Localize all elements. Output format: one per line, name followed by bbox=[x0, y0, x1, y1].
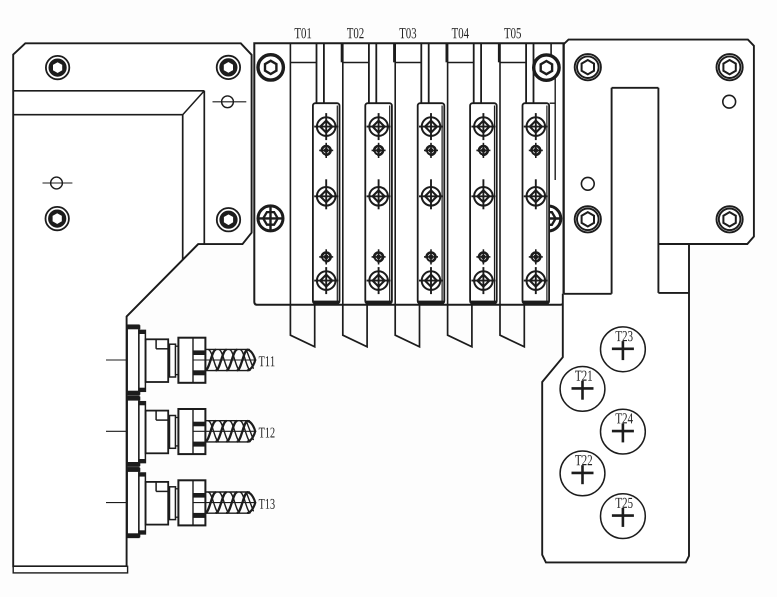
drill unit T13 bbox=[106, 468, 275, 538]
drill unit T12 bbox=[106, 397, 275, 467]
T05 holder bottom band bbox=[523, 301, 549, 305]
T13 spindle body bbox=[146, 482, 169, 525]
label T13 bbox=[259, 499, 275, 509]
T01 set screw (upper) bbox=[319, 143, 333, 158]
T01 tooth right edge bbox=[341, 43, 343, 62]
T05 holder inner edge bbox=[546, 106, 548, 302]
T04 holder inner edge bbox=[494, 106, 496, 302]
boss large corner chamfer bbox=[127, 244, 199, 316]
raised boss right edge (inner) bbox=[182, 115, 184, 260]
T03 blade shank right bbox=[428, 43, 430, 103]
T05 clamp screw (middle) bbox=[524, 179, 548, 209]
T12 twist drill bbox=[193, 421, 255, 442]
dowel hole (bridge, left) bbox=[581, 177, 594, 190]
T05 blade shank right bbox=[533, 43, 535, 103]
T04 blade shank right bbox=[480, 43, 482, 103]
T13 twist drill bbox=[193, 492, 255, 513]
T04 slot bottom step bbox=[448, 62, 474, 64]
bridge notch left edge bbox=[611, 88, 613, 294]
T05 slot left edge bbox=[499, 43, 501, 305]
slotted hole (left plate, right) bbox=[213, 96, 247, 108]
T12 mounting flange bbox=[127, 397, 139, 467]
T03 tooth right edge bbox=[445, 43, 447, 62]
tool station T04 bbox=[448, 28, 499, 347]
T01 holder inner edge bbox=[336, 106, 338, 302]
T04 holder bottom band bbox=[471, 301, 497, 305]
tool disc T22 bbox=[560, 451, 605, 496]
turret right notch bottom bbox=[551, 61, 555, 63]
bridge left edge bbox=[563, 44, 565, 294]
T05 clamp screw (bottom) bbox=[524, 267, 548, 294]
T13 spacer rings bbox=[170, 487, 176, 520]
T02 set screw (lower) bbox=[372, 249, 386, 264]
T01 insert blade below plate bbox=[290, 305, 314, 347]
T13 mounting flange bbox=[127, 468, 139, 538]
label T03 bbox=[399, 28, 416, 38]
T11 twist drill bbox=[193, 349, 255, 370]
hex socket screw (left plate, bottom-right) bbox=[217, 208, 240, 231]
T03 holder bottom band bbox=[418, 301, 444, 305]
T04 tooth right edge bbox=[498, 43, 500, 62]
T03 set screw (upper) bbox=[424, 143, 438, 158]
T05 clamp screw (top) bbox=[524, 113, 548, 140]
label T12 bbox=[259, 428, 275, 438]
label T02 bbox=[347, 28, 364, 38]
T05 tooth right edge bbox=[550, 43, 552, 62]
T04 clamp screw (middle) bbox=[471, 179, 495, 209]
T03 clamp screw (top) bbox=[419, 113, 443, 140]
label T01 bbox=[295, 28, 312, 38]
bridge notch top edge bbox=[612, 87, 659, 89]
T12 spacer rings bbox=[170, 416, 176, 449]
tool disc T21 bbox=[560, 367, 605, 412]
T11 centerline bbox=[106, 359, 166, 361]
left mounting plate outline bbox=[13, 43, 251, 566]
T05 slot bottom step bbox=[500, 62, 526, 64]
label T05 bbox=[504, 28, 521, 38]
T02 blade shank right bbox=[375, 43, 377, 103]
hex socket screw (bridge, bottom-right) bbox=[717, 206, 743, 232]
T01 holder block bbox=[313, 103, 340, 303]
bridge left leg bottom bbox=[564, 293, 612, 295]
T12 flange collar bbox=[139, 402, 146, 463]
T01 clamp screw (bottom) bbox=[314, 267, 338, 294]
T11 collet nut bbox=[178, 338, 205, 383]
hex socket screw (left plate, top-right) bbox=[217, 56, 240, 79]
tool station T02 bbox=[343, 28, 394, 347]
T01 clamp screw (middle) bbox=[314, 179, 338, 209]
T03 insert blade below plate bbox=[395, 305, 419, 347]
hex socket screw (bridge, top-left) bbox=[575, 54, 601, 80]
raised boss right edge (outer) bbox=[203, 91, 205, 244]
T03 blade shank left bbox=[420, 43, 422, 103]
T13 flange collar bbox=[139, 473, 146, 534]
drill unit T11 bbox=[106, 325, 274, 395]
T03 slot left edge bbox=[394, 43, 396, 305]
raised boss top edge (outer) bbox=[13, 90, 204, 92]
T05 set screw (upper) bbox=[529, 143, 543, 158]
T05 blade shank left bbox=[525, 43, 527, 103]
T04 set screw (upper) bbox=[476, 143, 490, 158]
T01 holder bottom band bbox=[313, 301, 339, 305]
right bridge plate outline bbox=[564, 40, 754, 244]
T04 blade shank left bbox=[473, 43, 475, 103]
raised boss top edge (inner) bbox=[13, 114, 183, 116]
T02 slot bottom step bbox=[343, 62, 369, 64]
T02 holder inner edge bbox=[389, 106, 391, 302]
T03 set screw (lower) bbox=[424, 249, 438, 264]
T02 clamp screw (top) bbox=[367, 113, 391, 140]
index screw (turret, bottom-left) bbox=[258, 205, 284, 231]
hex socket screw (left plate, top-left) bbox=[46, 56, 69, 79]
T12 collet nut bbox=[178, 409, 205, 454]
bridge notch right edge bbox=[657, 88, 659, 293]
T05 insert blade below plate bbox=[500, 305, 524, 347]
T04 insert blade below plate bbox=[448, 305, 472, 347]
hex socket screw (turret, top-right) bbox=[534, 55, 559, 80]
T01 blade shank right bbox=[323, 43, 325, 103]
T02 holder block bbox=[365, 103, 392, 303]
label T11 bbox=[259, 356, 275, 366]
tool disc T25 bbox=[601, 494, 646, 539]
right bridge plate and tool panel silhouette bbox=[542, 40, 754, 563]
T04 clamp screw (bottom) bbox=[471, 267, 495, 294]
T01 slot bottom step bbox=[290, 62, 316, 64]
T04 slot left edge bbox=[447, 43, 449, 305]
T13 centerline bbox=[106, 502, 166, 504]
T02 insert blade below plate bbox=[343, 305, 367, 347]
T03 holder inner edge bbox=[441, 106, 443, 302]
T05 set screw (lower) bbox=[529, 249, 543, 264]
T04 clamp screw (top) bbox=[471, 113, 495, 140]
T01 blade shank left bbox=[316, 43, 318, 103]
connecting tab bottom bbox=[658, 292, 689, 294]
tool disc T23 bbox=[601, 327, 646, 372]
T03 holder block bbox=[418, 103, 445, 303]
hex socket screw (left plate, bottom-left) bbox=[46, 207, 69, 230]
tool station T01 bbox=[290, 28, 341, 347]
T02 holder bottom band bbox=[366, 301, 392, 305]
T02 clamp screw (bottom) bbox=[367, 267, 391, 294]
T13 collet nut bbox=[178, 480, 205, 525]
dowel hole (bridge, right) bbox=[723, 95, 736, 108]
turret right mounting step vertical bbox=[554, 62, 556, 180]
tool station T05 bbox=[500, 28, 551, 347]
T01 clamp screw (top) bbox=[314, 113, 338, 140]
T02 set screw (upper) bbox=[372, 143, 386, 158]
turret plate outline bbox=[254, 43, 563, 305]
tool disc panel outline bbox=[542, 244, 689, 562]
T02 tooth right edge bbox=[393, 43, 395, 62]
T11 flange collar bbox=[139, 330, 146, 391]
T02 slot left edge bbox=[342, 43, 344, 305]
T03 slot bottom step bbox=[395, 62, 421, 64]
label T04 bbox=[452, 28, 469, 38]
T03 clamp screw (middle) bbox=[419, 179, 443, 209]
T12 spindle body bbox=[146, 411, 169, 454]
T02 blade shank left bbox=[368, 43, 370, 103]
hex socket screw (bridge, top-right) bbox=[717, 54, 743, 80]
turret right mounting step top bbox=[550, 102, 556, 104]
slotted hole (left plate) bbox=[43, 177, 73, 189]
T04 holder block bbox=[470, 103, 497, 303]
T01 slot left edge bbox=[289, 43, 291, 305]
T11 spacer rings bbox=[170, 344, 176, 377]
tool disc T24 bbox=[601, 409, 646, 454]
T02 clamp screw (middle) bbox=[367, 179, 391, 209]
hex socket screw (turret, top-left) bbox=[258, 55, 283, 80]
tool station T03 bbox=[395, 28, 446, 347]
T11 spindle body bbox=[146, 339, 169, 382]
T12 centerline bbox=[106, 430, 166, 432]
index screw (turret, bottom-right, partly hidden) bbox=[535, 206, 561, 232]
T05 holder block bbox=[523, 103, 550, 303]
T01 set screw (lower) bbox=[319, 249, 333, 264]
T11 mounting flange bbox=[127, 325, 139, 395]
left plate bottom rail bbox=[13, 566, 127, 573]
T03 clamp screw (bottom) bbox=[419, 267, 443, 294]
hex socket screw (bridge, bottom-left) bbox=[575, 206, 601, 232]
T04 set screw (lower) bbox=[476, 249, 490, 264]
boss corner bevel bbox=[183, 91, 205, 115]
